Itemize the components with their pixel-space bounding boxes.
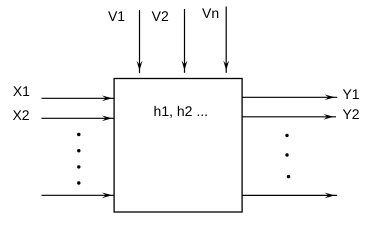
arrowhead V2 [182, 61, 188, 71]
right ellipsis dot 1 [285, 134, 288, 137]
arrowhead bottom-left input [102, 193, 112, 199]
wire Y1 output [242, 96, 337, 98]
arrowhead X1 [102, 96, 112, 102]
arrowhead Y2 [323, 114, 333, 120]
wire X1 input [42, 97, 115, 99]
svg-text:X2: X2 [12, 107, 29, 123]
arrowhead Vn [223, 61, 229, 71]
right ellipsis dot 2 [285, 153, 288, 156]
left ellipsis dot 2 [77, 149, 80, 152]
arrowhead Y1 [325, 95, 335, 101]
svg-text:Y2: Y2 [342, 106, 359, 122]
wire bottom-left input [42, 194, 115, 196]
system block (box) [114, 79, 242, 213]
svg-text:h1, h2 ...: h1, h2 ... [154, 103, 208, 119]
wire Y2 output [242, 116, 336, 118]
arrowhead X2 [102, 116, 112, 122]
arrowhead bottom-right output [325, 193, 335, 199]
wire V2 vertical [184, 9, 186, 73]
wire X2 input [42, 117, 115, 119]
svg-text:X1: X1 [13, 83, 30, 99]
wire Vn vertical [225, 7, 227, 73]
left ellipsis dot 1 [77, 133, 80, 136]
svg-text:Y1: Y1 [342, 86, 359, 102]
arrowhead V1 [137, 61, 143, 71]
wire V1 vertical [139, 10, 141, 73]
svg-text:V1: V1 [108, 8, 125, 24]
left ellipsis dot 4 [77, 181, 80, 184]
svg-text:Vn: Vn [202, 5, 219, 21]
svg-text:V2: V2 [152, 8, 169, 24]
right ellipsis dot 3 [287, 175, 290, 178]
left ellipsis dot 3 [77, 165, 80, 168]
wire bottom-right output [242, 194, 337, 196]
